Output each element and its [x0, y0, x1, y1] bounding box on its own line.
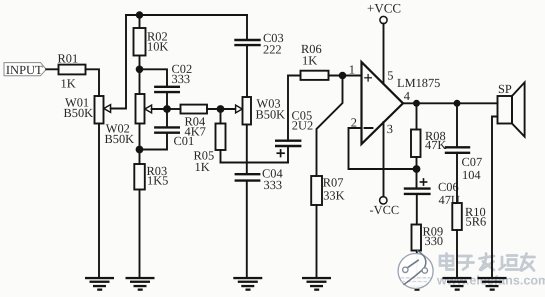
- capacitor C01: [155, 127, 194, 148]
- wire R02 to W02: [139, 56, 141, 95]
- svg-text:10K: 10K: [147, 39, 168, 53]
- ground (R10): [443, 277, 472, 291]
- wire C02 to wiper node: [166, 92, 168, 109]
- wire R09 to ground: [416, 251, 418, 278]
- wire C05 to R06: [288, 76, 301, 141]
- wire wiper node to R04: [167, 108, 181, 110]
- resistor R04: [181, 105, 208, 139]
- resistor R01: [58, 51, 86, 90]
- resistor R10: [452, 203, 486, 230]
- watermark text 电子发烧友: [440, 254, 535, 271]
- svg-text:4: 4: [404, 89, 410, 103]
- svg-text:INPUT: INPUT: [6, 63, 43, 77]
- ground (C04): [233, 277, 262, 291]
- node dot feedback/R08/C06: [413, 165, 421, 173]
- feedback wire pin1 node to R07: [317, 76, 343, 177]
- resistor R07: [311, 175, 344, 205]
- bottom rail wire: [221, 162, 289, 164]
- wire R01 to W01: [86, 69, 100, 96]
- svg-text:5R6: 5R6: [466, 215, 487, 229]
- wire output to C07: [456, 103, 458, 147]
- resistor R08: [411, 129, 446, 157]
- svg-text:333: 333: [172, 72, 191, 86]
- svg-text:47K: 47K: [425, 138, 446, 152]
- wire R07 to ground: [316, 205, 318, 278]
- svg-text:1K5: 1K5: [147, 174, 168, 188]
- svg-text:33K: 33K: [323, 189, 344, 203]
- svg-text:B50K: B50K: [256, 107, 286, 121]
- wire R06 to op-amp pin 1: [329, 75, 362, 77]
- ground (R09): [402, 277, 431, 291]
- resistor R03: [134, 164, 168, 190]
- node dot wiper/C01/R04: [163, 105, 171, 113]
- capacitor C03: [236, 31, 284, 57]
- svg-text:3: 3: [387, 122, 393, 136]
- wire +VCC to pin5: [383, 24, 385, 84]
- svg-text:5: 5: [387, 69, 393, 83]
- wire W01 wiper to top rail: [111, 15, 126, 109]
- svg-text:330: 330: [425, 234, 444, 248]
- wire output to R08: [416, 103, 418, 129]
- wire rail to R02: [139, 15, 141, 28]
- -VCC terminal: [370, 197, 400, 217]
- wire C06 to R09: [416, 194, 418, 225]
- node dot top rail / R02: [136, 11, 143, 18]
- ground (speaker): [478, 277, 507, 291]
- svg-text:104: 104: [462, 168, 481, 182]
- node dot W02/R03/C01: [136, 146, 144, 154]
- svg-text:C07: C07: [462, 155, 483, 169]
- wire C03 to W03 top: [246, 45, 248, 97]
- potentiometer W02: [105, 94, 152, 146]
- wire R10 to ground: [456, 230, 458, 278]
- svg-text:1K: 1K: [302, 54, 317, 68]
- wire C07 to R10: [456, 153, 458, 203]
- ground (R07): [302, 277, 331, 291]
- wire R05 to bottom rail: [220, 150, 222, 163]
- node dot output/C07: [454, 100, 461, 107]
- top rail wire: [126, 14, 247, 16]
- wire W01 to ground: [98, 124, 100, 278]
- wire C01 to lower node: [140, 133, 168, 150]
- INPUT terminal: [4, 63, 46, 77]
- wire node to C02: [140, 69, 168, 86]
- node dot output/R08: [413, 100, 420, 107]
- op-amp U1 LM1875: [351, 62, 441, 144]
- wire W02 wiper to node: [152, 108, 167, 110]
- wire W02 to R03: [139, 124, 141, 165]
- svg-text:B50K: B50K: [105, 132, 135, 146]
- wire INPUT to R01: [46, 68, 58, 70]
- node dot R04/R05: [217, 105, 225, 113]
- svg-text:1K: 1K: [61, 76, 76, 90]
- svg-text:4K7: 4K7: [185, 125, 206, 139]
- resistor R09: [412, 225, 444, 251]
- wire bottom rail to C05: [287, 146, 289, 163]
- wire R03 to ground: [139, 190, 141, 278]
- resistor R02: [134, 28, 169, 56]
- svg-text:333: 333: [264, 178, 283, 192]
- wire node to C01: [166, 109, 168, 127]
- ground (R03): [126, 277, 155, 291]
- capacitor C07: [446, 147, 482, 182]
- potentiometer W03: [236, 97, 286, 125]
- ground (W01): [85, 277, 114, 291]
- +VCC terminal: [367, 0, 401, 23]
- pin2 wire to feedback node: [349, 128, 417, 169]
- capacitor C06: [405, 179, 460, 207]
- wire R04 to W03 arrow: [207, 108, 236, 110]
- capacitor C04: [236, 166, 283, 192]
- capacitor C02: [155, 62, 192, 92]
- svg-text:2U2: 2U2: [292, 119, 313, 133]
- svg-text:SP: SP: [498, 82, 512, 96]
- wire node to R05: [220, 109, 222, 124]
- wire top rail to C03: [246, 15, 248, 40]
- speaker SP: [498, 82, 525, 137]
- svg-text:B50K: B50K: [64, 106, 94, 120]
- svg-text:222: 222: [263, 43, 282, 57]
- capacitor C05: [276, 109, 313, 157]
- output wire pin4 to speaker: [403, 102, 498, 104]
- node dot pin1: [339, 72, 347, 80]
- svg-text:1: 1: [349, 62, 355, 76]
- svg-text:R07: R07: [323, 175, 344, 189]
- watermark logo: [398, 251, 433, 289]
- node dot R02/C02: [136, 66, 144, 74]
- svg-text:LM1875: LM1875: [397, 76, 440, 90]
- svg-text:+VCC: +VCC: [367, 0, 401, 15]
- wire W03 bottom to C04: [246, 125, 248, 175]
- svg-text:R01: R01: [58, 51, 79, 65]
- wire C04 to ground: [246, 181, 248, 278]
- potentiometer W01: [64, 96, 111, 124]
- wire R08 to C06: [416, 157, 418, 188]
- svg-text:1K: 1K: [195, 160, 210, 174]
- wire pin3 to -VCC: [383, 122, 385, 197]
- resistor R05: [194, 124, 226, 174]
- speaker return wire: [492, 117, 498, 278]
- resistor R06: [301, 42, 329, 80]
- svg-text:-VCC: -VCC: [370, 203, 400, 217]
